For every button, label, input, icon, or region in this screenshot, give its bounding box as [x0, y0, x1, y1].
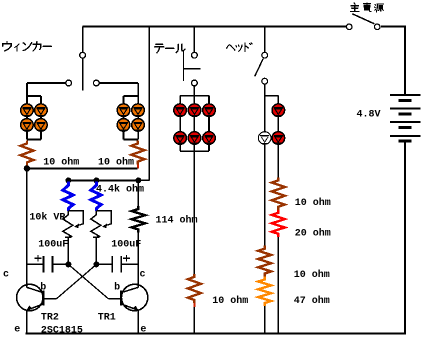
svg-text:10k VR: 10k VR: [29, 212, 65, 224]
svg-text:100uF: 100uF: [111, 240, 141, 251]
svg-text:b: b: [114, 282, 120, 294]
svg-text:20 ohm: 20 ohm: [295, 228, 331, 240]
svg-text:TR2: TR2: [41, 313, 59, 324]
svg-text:4.4k ohm: 4.4k ohm: [96, 184, 144, 196]
svg-text:e: e: [14, 324, 20, 335]
svg-text:10 ohm: 10 ohm: [294, 269, 330, 281]
svg-text:10 ohm: 10 ohm: [295, 197, 331, 209]
svg-text:10 ohm: 10 ohm: [212, 295, 248, 307]
svg-text:100uF: 100uF: [38, 240, 68, 251]
svg-text:10 ohm: 10 ohm: [43, 156, 79, 168]
svg-text:2SC1815: 2SC1815: [41, 326, 83, 337]
svg-text:c: c: [140, 270, 146, 281]
svg-text:e: e: [140, 324, 146, 335]
svg-text:c: c: [3, 270, 9, 281]
svg-text:b: b: [40, 282, 46, 294]
svg-text:TR1: TR1: [98, 313, 116, 324]
svg-text:114 ohm: 114 ohm: [156, 215, 198, 227]
svg-text:10 ohm: 10 ohm: [98, 156, 134, 168]
svg-text:47 ohm: 47 ohm: [294, 295, 330, 307]
svg-text:4.8V: 4.8V: [357, 110, 381, 121]
